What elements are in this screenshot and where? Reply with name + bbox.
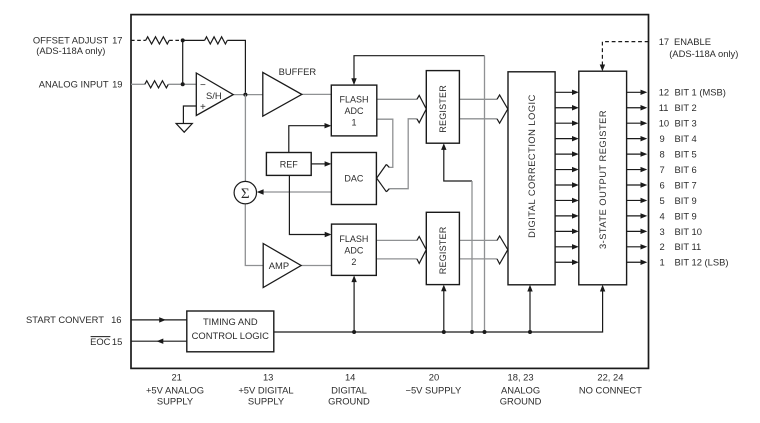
wire: bottom control bus from timing logic bbox=[274, 290, 603, 333]
wire: node C down to summing junction top bbox=[244, 95, 246, 182]
op-amp S/H bbox=[196, 73, 233, 116]
arrowhead into FLASH ADC 2 left (from REF) bbox=[325, 232, 332, 237]
arrowheads into 3-state register (12) bbox=[572, 90, 579, 265]
svg-text:+5V DIGITAL: +5V DIGITAL bbox=[238, 384, 293, 395]
svg-text:NO CONNECT: NO CONNECT bbox=[579, 384, 642, 395]
pin label 13 +5V DIGITAL SUPPLY bbox=[238, 371, 293, 406]
svg-text:8: 8 bbox=[660, 149, 665, 160]
svg-text:SUPPLY: SUPPLY bbox=[248, 396, 285, 407]
wire: REF down to FLASH ADC 2 control input bbox=[289, 175, 325, 234]
bus chevron into DIGITAL CORRECTION LOGIC (upper) bbox=[497, 95, 508, 123]
wire: S/H output to buffer input bbox=[233, 94, 263, 96]
svg-text:S/H: S/H bbox=[206, 90, 222, 101]
svg-text:12: 12 bbox=[659, 87, 669, 98]
svg-text:OFFSET ADJUST: OFFSET ADJUST bbox=[33, 34, 109, 45]
wire: REGISTER 1 lower feed line from DAC bus riser bbox=[389, 119, 417, 189]
junction dot bus at REGISTER 2 tap bbox=[442, 330, 446, 334]
svg-text:REGISTER: REGISTER bbox=[438, 85, 448, 133]
block DIGITAL CORRECTION LOGIC bbox=[508, 72, 555, 285]
arrowhead into 3-STATE OUTPUT REGISTER bottom bbox=[600, 285, 605, 292]
svg-text:7: 7 bbox=[660, 164, 665, 175]
svg-text:21: 21 bbox=[171, 371, 181, 382]
wire: dashed segment resistor R1 to node A bbox=[169, 39, 183, 41]
svg-text:5: 5 bbox=[660, 195, 665, 206]
wire: FLASH ADC 1 output bit line to REGISTER chevron bbox=[377, 98, 417, 100]
svg-text:16: 16 bbox=[111, 314, 121, 325]
node B junction dot (analog input) bbox=[181, 82, 185, 86]
svg-text:19: 19 bbox=[112, 79, 122, 90]
wire: FLASH ADC 2 output bus lines to REGISTER 2 bbox=[376, 240, 417, 259]
svg-text:FLASH: FLASH bbox=[339, 234, 368, 244]
svg-text:DIGITAL: DIGITAL bbox=[331, 384, 367, 395]
svg-text:BIT 1 (MSB): BIT 1 (MSB) bbox=[675, 87, 726, 98]
arrowhead on START CONVERT line bbox=[159, 317, 166, 322]
pin label ANALOG INPUT 19 bbox=[39, 79, 123, 90]
svg-text:17: 17 bbox=[659, 36, 669, 47]
amplifier AMP bbox=[263, 244, 301, 288]
svg-text:−5V SUPPLY: −5V SUPPLY bbox=[405, 384, 462, 395]
svg-text:2: 2 bbox=[660, 241, 665, 252]
svg-text:14: 14 bbox=[345, 371, 355, 382]
pin label OFFSET ADJUST 17 bbox=[33, 34, 123, 56]
wire: summing junction output down and right to AMP input bbox=[245, 204, 263, 266]
svg-text:3: 3 bbox=[660, 226, 665, 237]
svg-text:BIT 4: BIT 4 bbox=[675, 133, 697, 144]
arrowhead into FLASH ADC 2 bottom bbox=[351, 275, 356, 282]
svg-text:BIT 11: BIT 11 bbox=[675, 241, 702, 252]
svg-text:GROUND: GROUND bbox=[500, 396, 542, 407]
svg-text:BUFFER: BUFFER bbox=[279, 66, 317, 77]
svg-text:(ADS-118A only): (ADS-118A only) bbox=[36, 45, 105, 56]
svg-text:+5V ANALOG: +5V ANALOG bbox=[146, 384, 204, 395]
node C junction dot (S/H output) bbox=[243, 93, 247, 97]
svg-text:DIGITAL CORRECTION LOGIC: DIGITAL CORRECTION LOGIC bbox=[527, 94, 537, 238]
svg-text:BIT 9: BIT 9 bbox=[675, 195, 697, 206]
svg-text:11: 11 bbox=[659, 102, 669, 113]
svg-text:ENABLE: ENABLE bbox=[674, 36, 711, 47]
arrowhead into REGISTER 2 bottom bbox=[441, 285, 446, 292]
pin label 14 DIGITAL GROUND bbox=[328, 371, 370, 406]
wire: node A down to analog input node B bbox=[182, 40, 184, 84]
wire: bus tap up to FLASH ADC 2 bottom bbox=[353, 280, 355, 332]
resistor R2 (feedback) bbox=[205, 37, 228, 44]
svg-text:CONTROL LOGIC: CONTROL LOGIC bbox=[192, 330, 269, 341]
svg-text:BIT 5: BIT 5 bbox=[675, 149, 697, 160]
svg-text:ADC: ADC bbox=[344, 245, 364, 255]
pin label 17 ENABLE bbox=[659, 36, 739, 59]
wire: FLASH ADC 1 lower output down to DAC chevron feed bbox=[377, 119, 393, 167]
svg-text:ANALOG INPUT: ANALOG INPUT bbox=[39, 79, 109, 90]
block REGISTER 1 bbox=[426, 71, 459, 144]
wire: REGISTER 1 output bus lines to correction logic bbox=[459, 99, 497, 119]
block DAC bbox=[331, 153, 376, 205]
block 3-STATE OUTPUT REGISTER bbox=[579, 71, 627, 285]
svg-text:(ADS-118A only): (ADS-118A only) bbox=[669, 48, 738, 59]
wire: EOC output line bbox=[131, 340, 187, 342]
svg-text:1: 1 bbox=[660, 257, 665, 268]
wire: bus tap up to REGISTER 2 bottom bbox=[443, 290, 445, 333]
pin label 22,24 NO CONNECT bbox=[579, 371, 642, 395]
wire: resistor R2 to feedback corner down to S/H output node bbox=[227, 40, 245, 92]
junction dot bus at correction logic tap bbox=[528, 330, 532, 334]
wire: START CONVERT input line bbox=[131, 319, 187, 321]
svg-text:REF: REF bbox=[280, 159, 299, 169]
svg-text:1: 1 bbox=[351, 118, 356, 128]
svg-text:BIT 7: BIT 7 bbox=[675, 179, 697, 190]
wire: REF to DAC bbox=[311, 163, 325, 165]
wire: convert clock top loop to FLASH ADC 1 bbox=[354, 56, 485, 81]
ground symbol bbox=[176, 124, 192, 133]
pin label EOC-bar 15 bbox=[90, 336, 122, 347]
outer boundary of ADC block bbox=[131, 15, 649, 369]
svg-text:ADC: ADC bbox=[344, 106, 364, 116]
block TIMING AND CONTROL LOGIC bbox=[187, 311, 274, 352]
svg-text:BIT 12 (LSB): BIT 12 (LSB) bbox=[675, 257, 729, 268]
block REF bbox=[266, 153, 311, 176]
resistor R1 (offset adjust input) bbox=[146, 37, 170, 44]
svg-text:18, 23: 18, 23 bbox=[508, 371, 534, 382]
wire: S/H non-inverting input to ground bbox=[183, 106, 196, 124]
arrowhead into REGISTER 1 bottom bbox=[441, 143, 446, 150]
arrowheads at output pins on border (12) bbox=[641, 90, 648, 265]
pin label 20 -5V SUPPLY bbox=[405, 371, 462, 395]
svg-text:BIT 6: BIT 6 bbox=[675, 164, 697, 175]
wire: DAC output to summing junction bbox=[258, 191, 331, 193]
svg-text:10: 10 bbox=[659, 118, 669, 129]
svg-text:15: 15 bbox=[112, 336, 122, 347]
junction dot bus at V2 bbox=[470, 330, 474, 334]
svg-text:9: 9 bbox=[660, 133, 665, 144]
svg-text:4: 4 bbox=[660, 210, 665, 221]
arrowhead into 3-STATE register top (ENABLE) bbox=[600, 65, 605, 72]
pin label 18,23 ANALOG GROUND bbox=[500, 371, 542, 406]
wires: correction logic to 3-state register bit lines (12) bbox=[555, 92, 573, 262]
svg-text:17: 17 bbox=[112, 34, 122, 45]
svg-text:GROUND: GROUND bbox=[328, 396, 370, 407]
wire: REF up to FLASH ADC 1 control input bbox=[289, 126, 325, 153]
wire: vertical control line V1 down to bottom bus bbox=[484, 56, 486, 332]
svg-text:ANALOG: ANALOG bbox=[501, 384, 540, 395]
bus chevron into DAC right side bbox=[377, 164, 390, 191]
svg-text:22, 24: 22, 24 bbox=[597, 371, 623, 382]
wire: ENABLE dashed line from border to 3-STATE register top bbox=[602, 42, 648, 67]
wires: 3-state register to output pins (12) bbox=[627, 92, 642, 262]
svg-text:EOC: EOC bbox=[90, 336, 111, 347]
wire: buffer output to FLASH ADC 1 input bbox=[302, 93, 332, 95]
arrowhead into summing junction (from DAC) bbox=[257, 189, 264, 194]
svg-text:BIT 3: BIT 3 bbox=[675, 118, 697, 129]
bus chevron into REGISTER 1 bbox=[417, 95, 426, 122]
svg-text:2: 2 bbox=[351, 257, 356, 267]
arrowhead into DAC left (from REF) bbox=[325, 161, 332, 166]
svg-text:BIT 2: BIT 2 bbox=[675, 102, 697, 113]
junction dot bus at FLASH ADC 2 tap bbox=[352, 330, 356, 334]
wire: bus tap up to DIGITAL CORRECTION LOGIC bottom bbox=[529, 290, 531, 332]
svg-text:Σ: Σ bbox=[241, 186, 250, 202]
svg-text:6: 6 bbox=[660, 179, 665, 190]
svg-text:START CONVERT: START CONVERT bbox=[26, 314, 104, 325]
junction dot bus at V1 bbox=[483, 330, 487, 334]
bus chevron into REGISTER 2 bbox=[417, 237, 426, 264]
svg-text:BIT 9: BIT 9 bbox=[675, 210, 697, 221]
svg-text:+: + bbox=[200, 102, 206, 113]
wire: control line V2 from bus up to REGISTER 1 clock bbox=[444, 148, 472, 181]
wire: offset adjust dashed segment into resistor R1 bbox=[131, 39, 146, 41]
svg-text:DAC: DAC bbox=[344, 174, 364, 184]
arrowhead into DIGITAL CORRECTION LOGIC bottom bbox=[527, 285, 532, 292]
pin label START CONVERT 16 bbox=[26, 314, 121, 325]
wire: node A to resistor R2 bbox=[183, 39, 205, 41]
svg-text:AMP: AMP bbox=[269, 260, 289, 271]
arrowhead on EOC line bbox=[157, 339, 164, 344]
wire: AMP output to FLASH ADC 2 input bbox=[301, 265, 331, 267]
arrowhead into FLASH ADC 1 top bbox=[351, 78, 356, 85]
svg-text:SUPPLY: SUPPLY bbox=[157, 396, 194, 407]
resistor R3 (analog input) bbox=[145, 81, 169, 88]
block FLASH ADC 1 bbox=[331, 85, 377, 136]
svg-text:TIMING AND: TIMING AND bbox=[203, 316, 258, 327]
wire: resistor R3 to S/H inverting input bbox=[168, 83, 196, 85]
block REGISTER 2 bbox=[426, 212, 459, 284]
svg-text:3-STATE OUTPUT REGISTER: 3-STATE OUTPUT REGISTER bbox=[598, 110, 608, 249]
wire: REGISTER 2 output bus lines to correction logic bbox=[459, 240, 497, 259]
svg-text:REGISTER: REGISTER bbox=[438, 226, 448, 274]
arrowhead into FLASH ADC 1 left (from REF) bbox=[325, 123, 332, 128]
node A junction dot (offset adjust) bbox=[181, 38, 185, 42]
pin labels BIT 1..12 bbox=[659, 87, 729, 268]
summing junction sigma bbox=[234, 181, 256, 203]
svg-text:FLASH: FLASH bbox=[339, 95, 368, 105]
pin label 21 +5V ANALOG SUPPLY bbox=[146, 371, 204, 406]
svg-text:13: 13 bbox=[263, 371, 273, 382]
buffer amplifier bbox=[263, 66, 317, 116]
svg-text:20: 20 bbox=[429, 371, 439, 382]
wire: analog input from border to resistor R3 bbox=[131, 83, 145, 85]
block FLASH ADC 2 bbox=[332, 224, 377, 275]
svg-text:BIT 10: BIT 10 bbox=[675, 226, 702, 237]
bus chevron into DIGITAL CORRECTION LOGIC (lower) bbox=[497, 236, 508, 264]
